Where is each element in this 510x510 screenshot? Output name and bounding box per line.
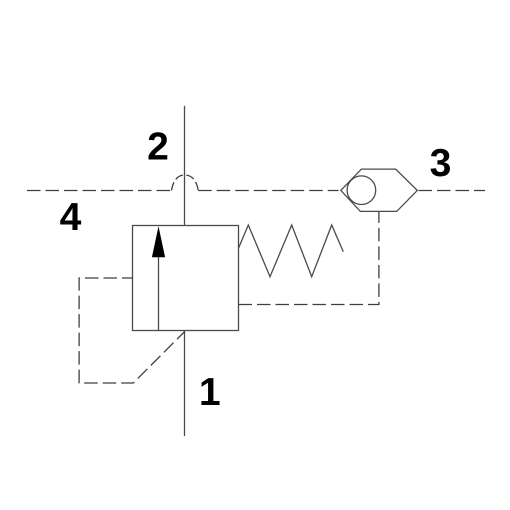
- pilot line to check valve (dashed, right): [239, 211, 379, 304]
- check valve body (hexagon): [341, 169, 418, 211]
- port 2 label: [149, 132, 168, 159]
- dashed line port 4 (left segment): [27, 190, 172, 192]
- line jump arc over vertical line: [172, 175, 199, 191]
- flow arrow shaft: [158, 256, 160, 331]
- valve body box: [133, 226, 239, 331]
- wire: vertical port 1 line: [184, 331, 186, 437]
- dashed line port 4 (middle segment): [198, 190, 338, 192]
- dashed line port 3 (right segment): [419, 190, 486, 192]
- spring: [239, 225, 344, 277]
- port 4 label: [60, 203, 81, 230]
- wire: vertical port 2 line: [184, 106, 186, 226]
- check valve ball: [347, 176, 376, 205]
- pilot line loop (dashed, left): [79, 278, 185, 383]
- port 3 label: [431, 149, 450, 177]
- flow arrow head: [152, 226, 165, 257]
- port 1 label: [201, 378, 219, 405]
